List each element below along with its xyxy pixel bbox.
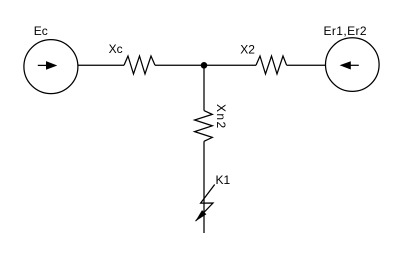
svg-text:X2: X2 (240, 43, 255, 57)
svg-text:K1: K1 (216, 173, 231, 187)
svg-text:Xn2: Xn2 (214, 104, 228, 130)
svg-text:Xc: Xc (109, 42, 123, 56)
svg-text:Er1,Er2: Er1,Er2 (324, 24, 367, 38)
svg-text:Ec: Ec (34, 24, 48, 38)
